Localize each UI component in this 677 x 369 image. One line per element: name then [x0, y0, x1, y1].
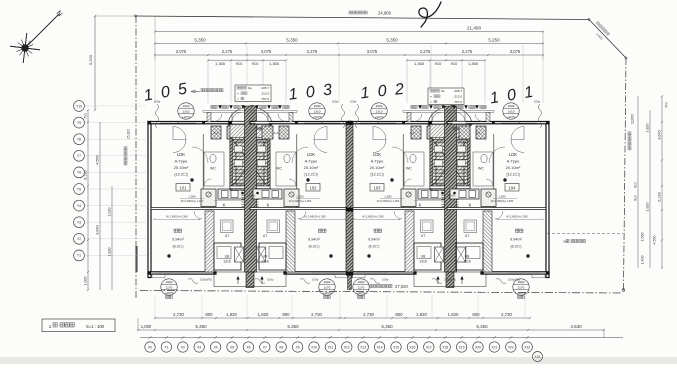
- PS shafts with X: [235, 247, 244, 262]
- design GL level box: [235, 85, 271, 102]
- lower terrace outline: [214, 272, 286, 287]
- svg-text:=: =: [237, 92, 239, 96]
- svg-text:1,000: 1,000: [141, 324, 152, 329]
- bedroom window bottom: [356, 271, 388, 273]
- bedroom door arc: [394, 211, 402, 219]
- svg-text:4,550: 4,550: [653, 236, 657, 245]
- kitchen dim line: [296, 198, 320, 200]
- svg-text:1,820: 1,820: [448, 312, 459, 317]
- wall LDK / WC partition: [493, 134, 495, 208]
- window spec balloon at 361,287: [353, 279, 369, 295]
- bedroom kanji label: [323, 229, 326, 232]
- grid bubble X22: [509, 336, 512, 339]
- entry door gap + arc: [232, 122, 245, 124]
- svg-text:K: K: [223, 202, 226, 207]
- left dimension chains: [87, 110, 89, 290]
- svg-text:2,730: 2,730: [501, 312, 512, 317]
- svg-text:UB: UB: [225, 255, 230, 259]
- stair bottom wall: [430, 186, 470, 189]
- svg-text:104: 104: [509, 185, 517, 190]
- note gomi-okiba arrow: [191, 90, 196, 93]
- exterior side wall: [148, 122, 151, 278]
- bottom wall: [284, 272, 352, 274]
- WC room: [276, 152, 296, 186]
- svg-text:UT: UT: [263, 234, 268, 238]
- bedroom door arc: [194, 211, 202, 219]
- exterior side wall: [349, 122, 352, 278]
- bottom dimension row 5,350: [138, 329, 604, 331]
- right dimension chains: [637, 96, 639, 268]
- svg-text:1310: 1310: [508, 110, 515, 114]
- svg-text:5,350: 5,350: [476, 324, 488, 329]
- svg-text:W=2,680(2)+1,380: W=2,680(2)+1,380: [289, 199, 312, 203]
- svg-text:+2270: +2270: [375, 115, 384, 119]
- mid horizontal wall: [447, 208, 546, 210]
- svg-text:LDK: LDK: [307, 152, 315, 157]
- corner boundary segment 1,000: [589, 20, 626, 59]
- meter/shaft boxes in porch: [476, 126, 486, 139]
- svg-text:100φ: 100φ: [534, 100, 541, 104]
- WC room: [404, 152, 424, 186]
- svg-text:A-Type: A-Type: [305, 159, 318, 164]
- X24 bubble: [533, 352, 543, 362]
- column dot LDK: [306, 178, 309, 181]
- svg-text:X0: X0: [148, 345, 152, 349]
- svg-text:800: 800: [205, 312, 213, 317]
- svg-text:2,730: 2,730: [363, 312, 374, 317]
- svg-text:150φ(FD): 150φ(FD): [508, 278, 520, 282]
- svg-text:W 2,680/2=1,380: W 2,680/2=1,380: [166, 214, 188, 218]
- bottom boundary line (dash-dot): [140, 291, 622, 294]
- svg-text:1,000: 1,000: [84, 277, 88, 286]
- porch pier: [207, 112, 211, 121]
- UT washing area: [464, 220, 477, 233]
- svg-text:Y8: Y8: [77, 138, 81, 142]
- svg-text:1,380(W): 1,380(W): [245, 194, 256, 198]
- hose bib arrows on top wall: [218, 105, 222, 109]
- title box 1F plan S=1:100: [42, 319, 115, 332]
- stair block: [430, 136, 470, 190]
- hose bib arrows on top wall: [475, 105, 479, 109]
- UT washing area: [267, 220, 280, 233]
- UB 1316 bathroom: [414, 243, 441, 270]
- svg-text:WC: WC: [210, 167, 216, 171]
- stair block: [230, 136, 270, 190]
- WC door arc: [486, 179, 493, 186]
- entry step outside: [152, 274, 165, 277]
- vent squiggle on outer wall: [156, 104, 159, 128]
- svg-text:: 757.0: : 757.0: [453, 100, 463, 104]
- wall between bedroom and UT/UB (hatched): [405, 211, 414, 272]
- svg-text:9.94m²: 9.94m²: [368, 238, 381, 242]
- svg-text:102: 102: [310, 185, 318, 190]
- svg-text:2,275: 2,275: [420, 49, 431, 54]
- north compass star: [10, 14, 59, 63]
- svg-text:X23: X23: [524, 345, 530, 349]
- entry dim line: [214, 200, 246, 202]
- svg-text:WC: WC: [478, 167, 484, 171]
- svg-text:X6: X6: [246, 345, 250, 349]
- entry canopy line: [403, 109, 450, 111]
- svg-text:S.A: S.A: [476, 131, 481, 135]
- svg-text:X14: X14: [377, 345, 383, 349]
- svg-text:12,683: 12,683: [631, 114, 635, 124]
- vent squiggle on outer wall: [539, 104, 542, 128]
- svg-text:W=2,680(2)+1,380: W=2,680(2)+1,380: [181, 199, 204, 203]
- grid bubble X9: [296, 336, 299, 339]
- column dot LDK: [190, 178, 193, 181]
- vent squiggle on outer wall: [356, 104, 359, 128]
- svg-text:1310: 1310: [183, 110, 190, 114]
- svg-text:Y5: Y5: [77, 187, 81, 191]
- kitchen dim line: [180, 198, 204, 200]
- grid bubble X2: [181, 336, 184, 339]
- bedroom kanji label: [374, 229, 377, 232]
- top wall: [348, 122, 450, 124]
- design GL level box: [428, 88, 464, 105]
- svg-text:5,350: 5,350: [286, 37, 298, 42]
- entry canopy line: [250, 109, 297, 111]
- porch pier: [289, 112, 293, 121]
- svg-text:103: 103: [374, 185, 382, 190]
- svg-text:9.94m²: 9.94m²: [172, 238, 185, 242]
- grid bubble X17: [427, 336, 430, 339]
- svg-text:20.10m²: 20.10m²: [506, 165, 521, 170]
- svg-text:1,820: 1,820: [416, 312, 427, 317]
- entry step outside: [352, 274, 365, 277]
- svg-text:910: 910: [435, 61, 442, 66]
- svg-text:1,820: 1,820: [646, 124, 650, 133]
- svg-text:1600: 1600: [324, 280, 331, 284]
- svg-text:X24: X24: [535, 355, 541, 359]
- svg-text:6,190: 6,190: [658, 192, 662, 202]
- svg-text:1: 1: [49, 324, 52, 329]
- right boundary line: [624, 58, 627, 290]
- svg-text:(6.0▢): (6.0▢): [510, 245, 521, 249]
- svg-text:UT: UT: [225, 234, 230, 238]
- svg-text:X8: X8: [279, 345, 283, 349]
- svg-text:(6.0▢): (6.0▢): [172, 245, 183, 249]
- grid bubble X0: [149, 336, 152, 339]
- pipe leader squiggles: [188, 279, 198, 284]
- svg-text:24,909: 24,909: [378, 11, 391, 16]
- svg-text:2,730: 2,730: [311, 312, 322, 317]
- kitchen counter + fridge: [201, 189, 216, 207]
- window spec balloon at 186,111: [178, 103, 194, 119]
- svg-text:A-Type: A-Type: [507, 159, 520, 164]
- vent squiggle on outer wall: [342, 104, 345, 128]
- grid bubble X19: [460, 336, 463, 339]
- WC room: [473, 152, 493, 186]
- grid bubble X11: [329, 336, 332, 339]
- grid bubble X6: [247, 336, 250, 339]
- svg-text:: 212.0: : 212.0: [453, 95, 463, 99]
- svg-text:100φ: 100φ: [332, 100, 339, 104]
- svg-text:5,220: 5,220: [88, 54, 93, 65]
- dimension row 21,400: [155, 31, 543, 33]
- grid bubble Y1: [74, 250, 85, 261]
- kitchen dim line: [493, 198, 517, 200]
- grid bubble X23: [526, 336, 529, 339]
- svg-text:700: 700: [84, 113, 88, 119]
- wall between bedroom and UT/UB (hatched): [205, 211, 214, 272]
- LDK door arcs: [511, 127, 524, 140]
- svg-text:2,275: 2,275: [222, 49, 233, 54]
- road boundary line 24,909: [135, 16, 589, 20]
- entry canopy line: [447, 109, 494, 111]
- svg-text:910: 910: [252, 61, 259, 66]
- LDK window top: [360, 121, 396, 123]
- mid horizontal wall: [250, 208, 349, 210]
- wall LDK / WC partition: [296, 134, 298, 208]
- svg-text:100φ: 100φ: [154, 100, 161, 104]
- svg-text:910: 910: [451, 61, 458, 66]
- window spec balloon at 511,111: [503, 103, 519, 119]
- svg-text:X11: X11: [328, 345, 334, 349]
- hose bib arrows on top wall: [418, 105, 422, 109]
- bedroom kanji label: [520, 229, 523, 232]
- svg-text:1,580: 1,580: [498, 195, 506, 199]
- svg-text:Y6: Y6: [77, 171, 81, 175]
- column dot LDK: [390, 178, 393, 181]
- grid bubble X16: [411, 336, 414, 339]
- grid bubble X4: [214, 336, 217, 339]
- svg-text:UT: UT: [421, 234, 426, 238]
- svg-text:X10: X10: [311, 345, 317, 349]
- svg-text:2,275: 2,275: [462, 49, 473, 54]
- UT washing area: [221, 220, 234, 233]
- vent arrows bottom: [236, 276, 239, 280]
- grid bubble X3: [198, 336, 201, 339]
- grid bubble X12: [345, 336, 348, 339]
- svg-text:: 205.7: : 205.7: [260, 86, 270, 90]
- grid bubble Y4: [74, 200, 85, 211]
- svg-text:5,250: 5,250: [488, 37, 500, 42]
- room number box 103: [370, 184, 384, 192]
- svg-text:1316: 1316: [463, 260, 471, 264]
- svg-text:3,075: 3,075: [261, 49, 272, 54]
- bedroom dim line: [497, 218, 543, 220]
- window spec balloon at 521,287: [513, 279, 529, 295]
- svg-text:1,530: 1,530: [641, 233, 645, 242]
- svg-text:X19: X19: [459, 345, 465, 349]
- svg-text:GL: GL: [441, 89, 445, 93]
- entry step outside: [532, 274, 545, 277]
- svg-text:1600: 1600: [508, 104, 515, 108]
- svg-text:GL: GL: [248, 86, 252, 90]
- svg-text:3,640: 3,640: [658, 130, 662, 140]
- 3m private road note: [547, 233, 623, 235]
- svg-text:5,350: 5,350: [194, 37, 206, 42]
- svg-text:UB: UB: [263, 255, 268, 259]
- bedroom door arc: [298, 211, 306, 219]
- svg-text:27,020: 27,020: [395, 284, 408, 289]
- svg-text:Y4: Y4: [77, 204, 81, 208]
- entry dim line: [414, 200, 446, 202]
- svg-text:X13: X13: [360, 345, 366, 349]
- grid bubble X14: [378, 336, 381, 339]
- LDK window top: [160, 121, 196, 123]
- kitchen counter + fridge: [401, 189, 416, 207]
- svg-text:A-Type: A-Type: [371, 159, 384, 164]
- svg-text:X18: X18: [442, 345, 448, 349]
- grid bubble X8: [280, 336, 283, 339]
- central party wall (hatched): [245, 106, 257, 272]
- svg-text:4,550: 4,550: [96, 155, 100, 165]
- wall LDK / WC partition: [402, 134, 404, 208]
- svg-text:1170: 1170: [518, 286, 525, 290]
- svg-text:1,580: 1,580: [188, 195, 196, 199]
- svg-text:1170: 1170: [358, 286, 365, 290]
- svg-text:3,075: 3,075: [510, 49, 521, 54]
- svg-text:5,350: 5,350: [381, 324, 393, 329]
- svg-text:910: 910: [236, 61, 243, 66]
- lower stair flight: [442, 190, 459, 192]
- svg-text:+2070: +2070: [165, 291, 174, 295]
- bedroom window bottom: [312, 271, 344, 273]
- PS shafts with X: [435, 247, 444, 262]
- entry door gap + arc: [256, 122, 269, 124]
- room number box 101: [176, 184, 190, 192]
- svg-text:800: 800: [282, 312, 290, 317]
- svg-text:100φ: 100φ: [350, 100, 357, 104]
- bottom dimension row detail: [155, 317, 525, 319]
- svg-text:W 2,680/2=1,380: W 2,680/2=1,380: [362, 214, 384, 218]
- porch pier: [486, 112, 490, 121]
- svg-text:1600: 1600: [358, 280, 365, 284]
- porch dome arc: [428, 107, 472, 125]
- svg-text:20.10m²: 20.10m²: [370, 165, 385, 170]
- svg-text:5,350: 5,350: [195, 324, 207, 329]
- svg-text:1316: 1316: [419, 260, 427, 264]
- grid bubble X5: [231, 336, 234, 339]
- svg-text:910: 910: [634, 195, 638, 201]
- svg-text:1,365: 1,365: [215, 61, 226, 66]
- svg-text:X1: X1: [164, 345, 168, 349]
- WC door arc: [404, 179, 411, 186]
- LDK door arcs: [173, 127, 186, 140]
- svg-text:9.94m²: 9.94m²: [510, 238, 523, 242]
- porch dome arc: [228, 107, 272, 125]
- grid bubble Y3: [74, 217, 85, 228]
- svg-text:K: K: [469, 202, 472, 207]
- grid bubble Y8: [74, 134, 85, 145]
- kitchen counter + fridge: [284, 189, 299, 207]
- bedroom window bottom: [156, 271, 188, 273]
- svg-text:100φ: 100φ: [382, 278, 389, 282]
- wall between bedroom and UT/UB (hatched): [483, 211, 492, 272]
- svg-text:(6.0▢): (6.0▢): [308, 245, 319, 249]
- top wall: [148, 122, 250, 124]
- grid bubble X13: [362, 336, 365, 339]
- UT washing area: [421, 220, 434, 233]
- svg-text:K: K: [419, 202, 422, 207]
- exterior side wall: [546, 122, 549, 278]
- svg-text:WC: WC: [406, 167, 412, 171]
- grid bubble X10: [313, 336, 316, 339]
- grid bubble X21: [493, 336, 496, 339]
- dimension row 1,365 / 910 pairs: [208, 59, 286, 61]
- X grid tick line: [140, 337, 623, 339]
- svg-text:1600: 1600: [166, 280, 173, 284]
- svg-text:+2270: +2270: [507, 115, 516, 119]
- svg-text:1,580: 1,580: [384, 195, 392, 199]
- svg-text:S.A: S.A: [274, 131, 279, 135]
- bedroom door arc: [495, 211, 503, 219]
- svg-text:X3: X3: [197, 345, 201, 349]
- svg-text:910: 910: [634, 182, 638, 188]
- svg-text:1,365: 1,365: [269, 61, 280, 66]
- WC door arc: [204, 179, 211, 186]
- svg-text:UB: UB: [421, 255, 426, 259]
- exterior side wall: [348, 122, 351, 278]
- svg-text:1,400: 1,400: [641, 256, 645, 265]
- svg-text:1310: 1310: [376, 110, 383, 114]
- grid bubble X20: [477, 336, 480, 339]
- svg-text:1,820: 1,820: [108, 248, 112, 257]
- svg-text:100φ(FD): 100φ(FD): [444, 278, 456, 282]
- svg-text:Y1: Y1: [77, 254, 81, 258]
- kitchen dim line: [380, 198, 404, 200]
- svg-text:2,075: 2,075: [176, 49, 187, 54]
- window spec balloon at 169,287: [161, 279, 177, 295]
- grid bubble X1: [165, 336, 168, 339]
- upper landing hatch: [230, 125, 270, 138]
- svg-text:X21: X21: [491, 345, 497, 349]
- svg-text:=: =: [237, 97, 239, 101]
- svg-text:: 205.7: : 205.7: [453, 89, 463, 93]
- lower terrace outline: [414, 272, 486, 287]
- LDK door arcs: [373, 127, 386, 140]
- scan smudge on boundary: [135, 246, 137, 272]
- svg-text:20.10m²: 20.10m²: [304, 165, 319, 170]
- svg-text:+2070: +2070: [517, 291, 526, 295]
- svg-text:8,190: 8,190: [84, 170, 88, 180]
- centre hose arrow: [450, 105, 454, 109]
- svg-text:15,110: 15,110: [127, 129, 131, 139]
- svg-text:X5: X5: [230, 345, 234, 349]
- UB 1316 bathroom: [456, 243, 483, 270]
- room number box 102: [306, 184, 320, 192]
- wall between bedroom and UT/UB (hatched): [286, 211, 295, 272]
- centre hose arrow: [250, 105, 254, 109]
- svg-text:X15: X15: [393, 345, 399, 349]
- svg-text:Y10: Y10: [76, 104, 82, 108]
- UB 1316 bathroom: [214, 243, 241, 270]
- svg-text:S.A: S.A: [410, 131, 415, 135]
- svg-text:1,820: 1,820: [258, 312, 269, 317]
- svg-text:LDK: LDK: [509, 152, 517, 157]
- svg-text:700: 700: [665, 102, 669, 108]
- handwritten pen curl: [419, 2, 441, 27]
- svg-text:1,020: 1,020: [108, 208, 112, 217]
- svg-text:X22: X22: [508, 345, 514, 349]
- svg-text:1,380(W): 1,380(W): [445, 194, 456, 198]
- svg-text:X7: X7: [263, 345, 267, 349]
- svg-text:Y9: Y9: [77, 121, 81, 125]
- meter/shaft boxes in porch: [411, 126, 421, 139]
- left 5,220 dimension: [94, 16, 96, 110]
- svg-text:3,075: 3,075: [367, 49, 378, 54]
- svg-text:[12.2▢]: [12.2▢]: [304, 173, 317, 177]
- stair bottom wall: [230, 186, 270, 189]
- WC door arc: [289, 179, 296, 186]
- svg-text:S=1 : 100: S=1 : 100: [86, 324, 105, 329]
- grid bubble Y9: [74, 117, 85, 128]
- left boundary line (dash-dot): [135, 16, 137, 298]
- svg-text:1316: 1316: [223, 260, 231, 264]
- svg-text:1600: 1600: [314, 104, 321, 108]
